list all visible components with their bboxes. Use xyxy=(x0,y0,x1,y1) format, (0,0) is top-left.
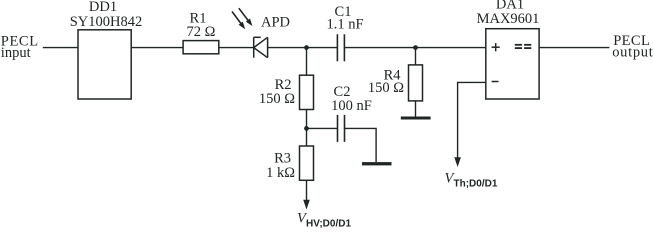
resistor R3 labels xyxy=(266,151,295,181)
wire R2 top lead xyxy=(306,48,308,76)
node PECL input label xyxy=(1,33,39,61)
light ray arrow 2 xyxy=(239,8,249,21)
svg-text:input: input xyxy=(1,45,31,61)
resistor R2 body xyxy=(300,75,314,109)
junction node at R4 top xyxy=(413,45,418,50)
resistor R1 labels xyxy=(187,11,216,40)
wire C2 to ground xyxy=(345,128,377,162)
wire R4 to ground xyxy=(415,101,417,117)
svg-text:HV;D0/D1: HV;D0/D1 xyxy=(306,219,351,229)
light ray arrow 1 xyxy=(232,12,241,24)
comparator DA1 latch symbol == xyxy=(515,44,532,49)
wire R1 to APD xyxy=(219,47,254,49)
wire input lead xyxy=(43,47,78,49)
capacitor C2 plates xyxy=(338,115,345,142)
svg-text:1.1 nF: 1.1 nF xyxy=(326,17,363,33)
svg-text:100 nF: 100 nF xyxy=(331,98,372,114)
resistor R2 labels xyxy=(259,77,295,107)
svg-text:APD: APD xyxy=(261,14,290,30)
wire APD to C1 xyxy=(268,47,338,49)
wire R2 bottom to junction xyxy=(306,110,308,147)
ground bar under R4 xyxy=(401,117,431,120)
resistor R4 body xyxy=(409,65,423,101)
resistor R1 body xyxy=(183,41,219,54)
light arrowhead 2 xyxy=(246,19,253,27)
ground bar under C2 xyxy=(362,162,392,165)
IC DA1 name labels xyxy=(477,0,540,27)
resistor R3 body xyxy=(300,146,314,180)
svg-text:150 Ω: 150 Ω xyxy=(368,80,404,96)
svg-text:output: output xyxy=(612,45,653,61)
wire R4 top lead xyxy=(415,48,417,65)
svg-text:1 kΩ: 1 kΩ xyxy=(266,165,295,181)
node PECL output label xyxy=(612,33,653,60)
IC DD1 labels xyxy=(70,0,143,30)
wire output lead xyxy=(539,47,609,49)
comparator DA1 box xyxy=(486,29,539,99)
net VTh label xyxy=(445,171,498,190)
svg-text:Th;D0/D1: Th;D0/D1 xyxy=(454,179,498,190)
junction node at R2 top xyxy=(304,45,309,50)
capacitor C2 labels xyxy=(331,84,372,114)
IC DD1 box xyxy=(78,30,131,99)
svg-text:DD1: DD1 xyxy=(89,0,117,15)
wire DA1 minus input xyxy=(458,82,486,158)
VHV arrowhead xyxy=(303,200,310,210)
wire DD1 to R1 xyxy=(131,47,183,49)
light arrowhead 1 xyxy=(239,22,246,30)
VTh arrowhead xyxy=(454,157,461,167)
wire R3 bottom lead xyxy=(306,180,308,201)
junction node at R2 bottom xyxy=(304,126,309,131)
net VHV label xyxy=(297,211,351,230)
capacitor C1 labels xyxy=(326,4,363,33)
photodiode APD symbol xyxy=(254,37,268,57)
capacitor C1 plates xyxy=(337,34,344,61)
wire junction to C2 xyxy=(307,127,338,129)
svg-text:MAX9601: MAX9601 xyxy=(477,11,540,27)
svg-text:150 Ω: 150 Ω xyxy=(259,91,295,107)
resistor R4 labels xyxy=(368,67,404,96)
wire C1 to DA1 xyxy=(344,47,485,49)
svg-text:72 Ω: 72 Ω xyxy=(187,24,216,40)
svg-text:SY100H842: SY100H842 xyxy=(70,14,143,30)
comparator DA1 labels xyxy=(492,43,500,81)
